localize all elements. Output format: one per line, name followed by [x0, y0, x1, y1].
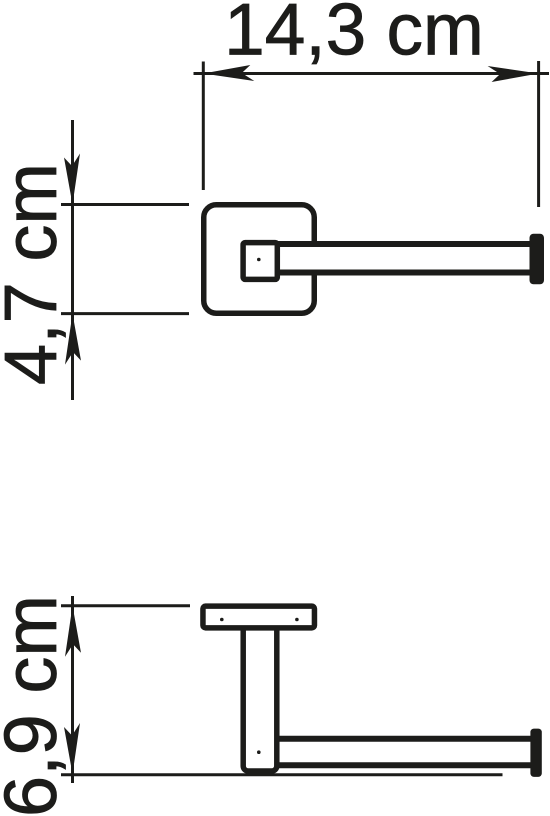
svg-text:6,9 cm: 6,9 cm: [0, 595, 72, 816]
svg-text:14,3 cm: 14,3 cm: [224, 0, 484, 71]
svg-text:4,7 cm: 4,7 cm: [0, 163, 72, 385]
